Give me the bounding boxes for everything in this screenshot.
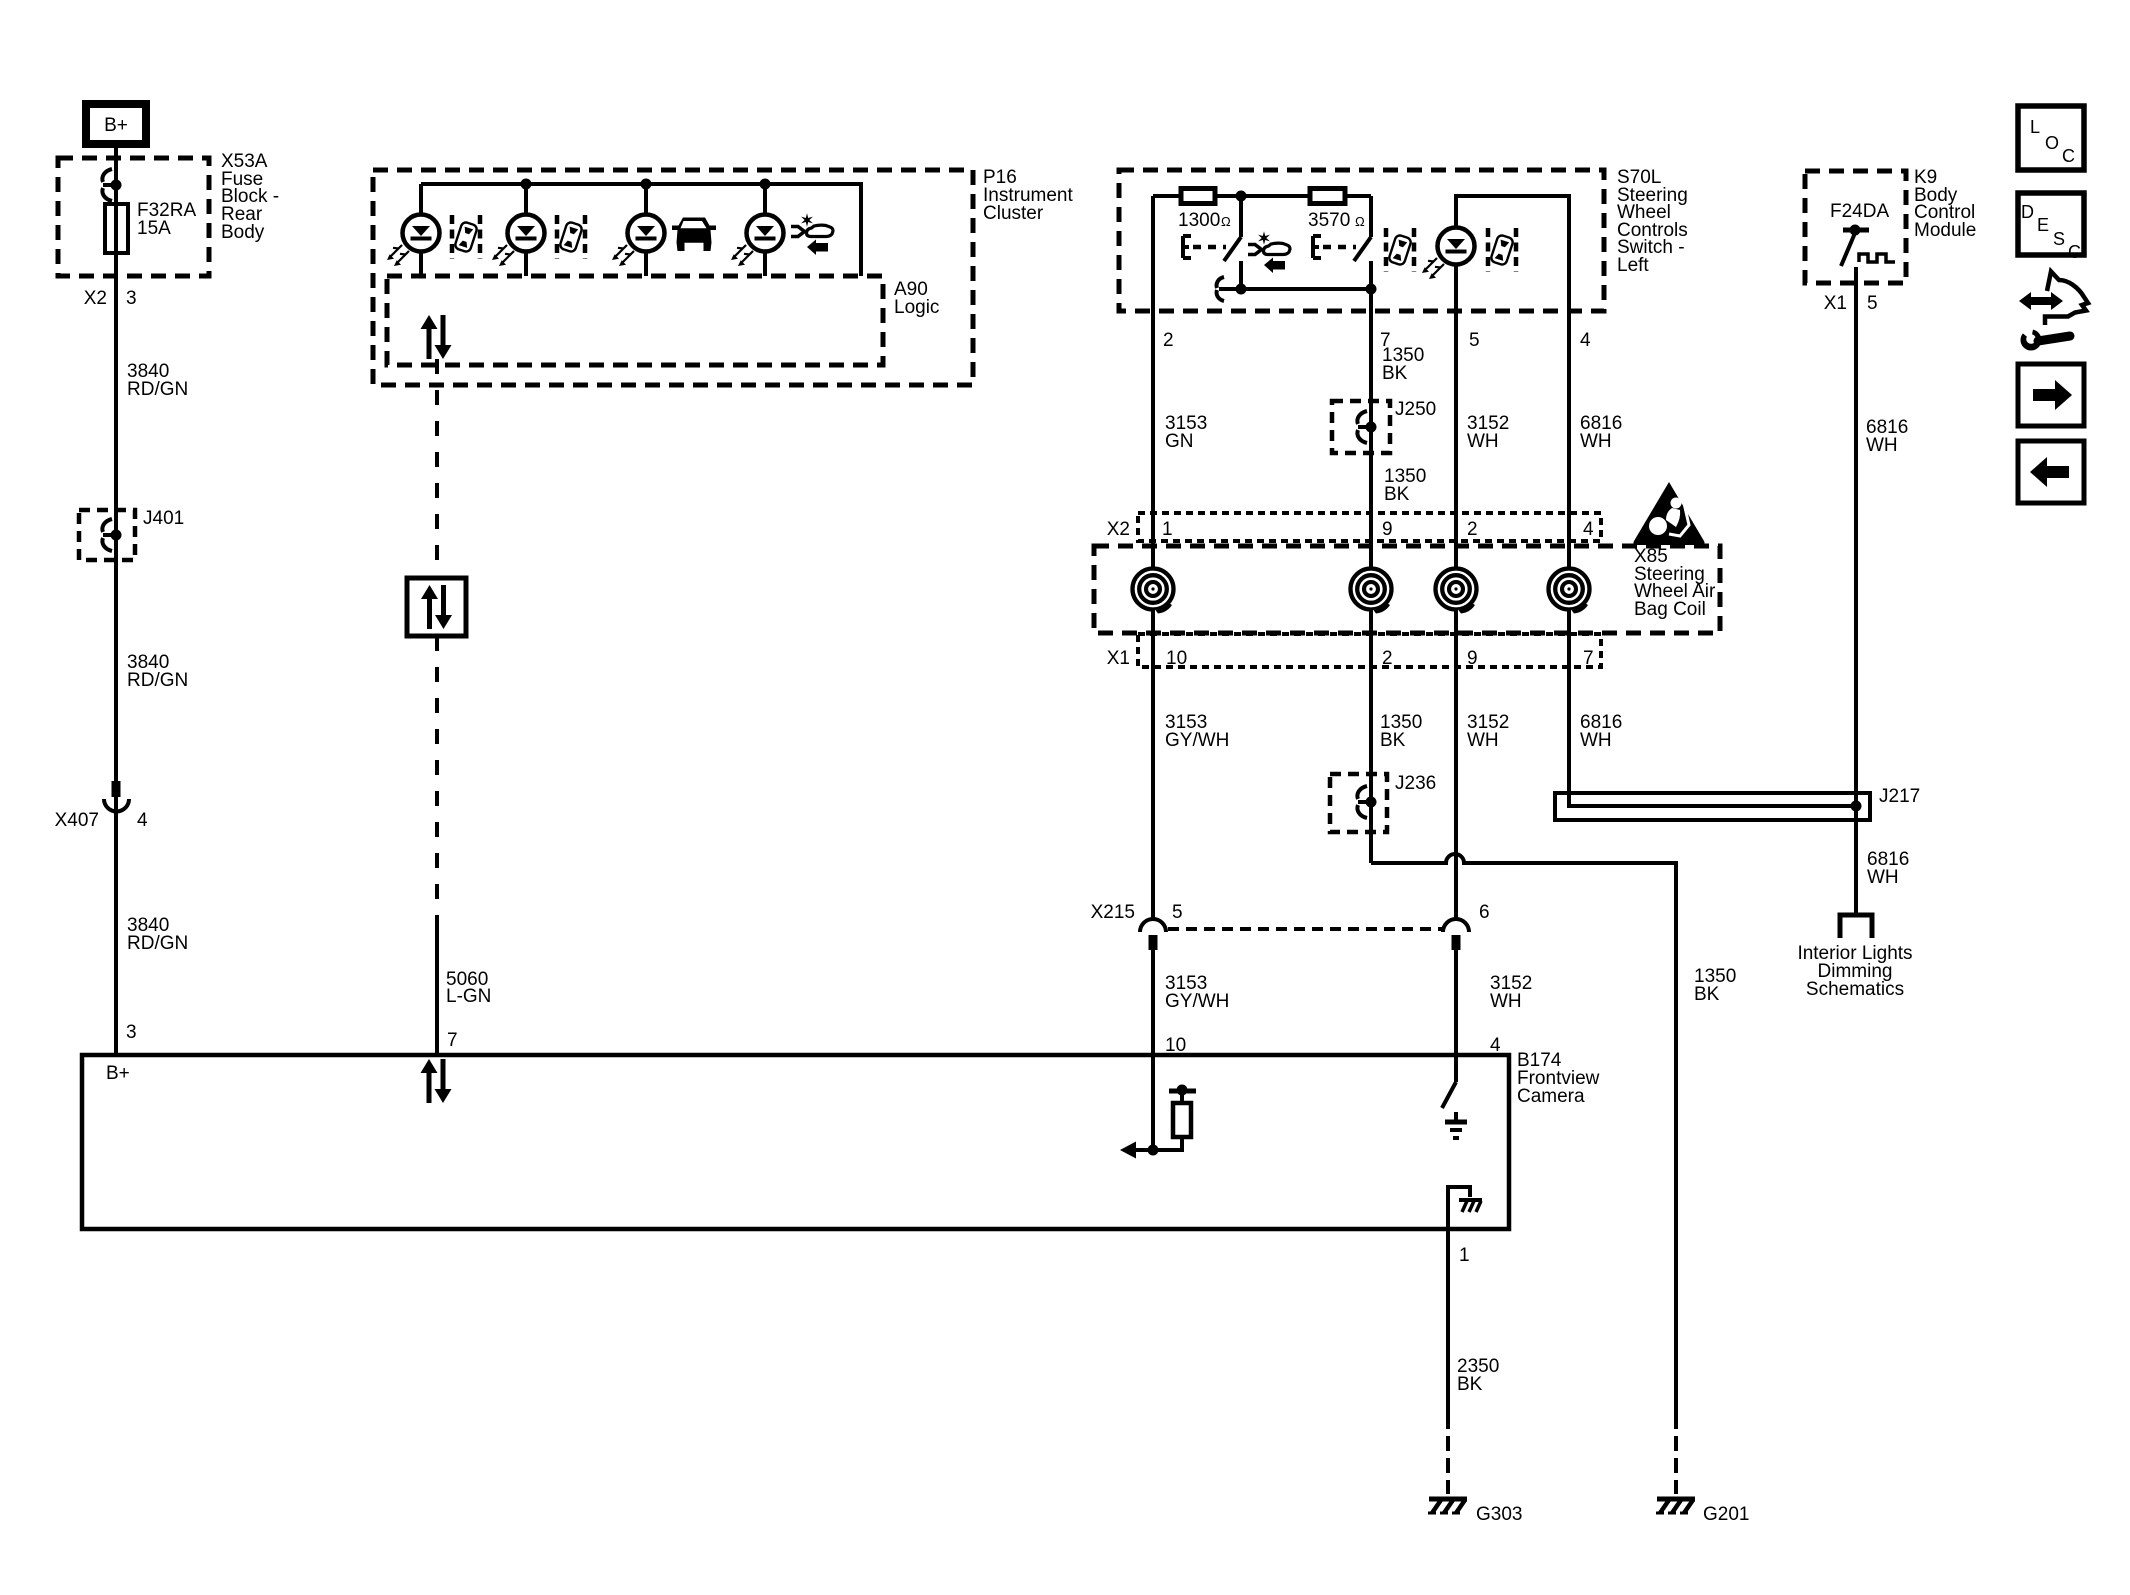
svg-text:7: 7 [447, 1030, 458, 1051]
LED indicator lamp 4 [731, 215, 784, 267]
splice J236 [1330, 773, 1436, 832]
svg-text:C: C [2062, 146, 2075, 166]
svg-text:2: 2 [1163, 330, 1174, 351]
inline connector X215 [1091, 902, 1490, 950]
ground G201 [1656, 1499, 1749, 1525]
wire label 2350 BK [1457, 1356, 1499, 1395]
svg-text:Camera: Camera [1517, 1086, 1585, 1107]
svg-text:F24DA: F24DA [1830, 201, 1889, 222]
svg-text:GN: GN [1165, 431, 1194, 452]
wire label 3153 GY/WH lower [1165, 973, 1229, 1012]
fuse F32RA 15A [105, 200, 196, 253]
svg-text:C: C [2068, 242, 2081, 262]
label X85 Steering Wheel Air Bag Coil [1634, 546, 1716, 620]
LED branch wire in switch [1456, 196, 1569, 311]
junction node dot 4 [760, 179, 771, 190]
svg-text:10: 10 [1166, 648, 1187, 669]
legend connector repair icon [2015, 272, 2088, 351]
svg-text:X407: X407 [55, 810, 99, 831]
legend arrow left box [2018, 441, 2084, 503]
svg-text:4: 4 [1580, 330, 1591, 351]
serial data wire 5060 L-GN solid tail [435, 922, 439, 1055]
wire label 1350 BK [1380, 712, 1422, 751]
camera pin 4 input with ground [1442, 1055, 1467, 1138]
svg-text:2: 2 [1467, 519, 1478, 540]
svg-text:3: 3 [126, 288, 137, 309]
svg-text:Left: Left [1617, 255, 1649, 276]
svg-text:WH: WH [1467, 431, 1499, 452]
LED indicator lamp 1 [387, 215, 440, 267]
LED indicator lamp 3 [612, 215, 665, 267]
label K9 Body Control Module [1914, 167, 1976, 241]
svg-text:X2: X2 [1107, 519, 1130, 540]
svg-text:WH: WH [1867, 867, 1899, 888]
resistor 3570 ohm [1308, 189, 1365, 232]
svg-text:GY/WH: GY/WH [1165, 991, 1229, 1012]
wire label 3153 GN [1165, 413, 1207, 452]
wire label 3840 RD/GN [127, 361, 188, 400]
svg-text:D: D [2021, 202, 2034, 222]
serial data arrows in A90 [421, 315, 452, 359]
connector X2 row of air bag coil [1107, 513, 1601, 541]
wire from left rail to pin 2 [1151, 196, 1155, 311]
lane departure icon 2 [557, 215, 585, 259]
svg-text:X2: X2 [84, 288, 107, 309]
junction dot rail to pin7 wire [1366, 284, 1377, 295]
camera pin 10 input circuit [1120, 1055, 1196, 1159]
coil 3 [1434, 567, 1479, 614]
junction node dot 3 [641, 179, 652, 190]
svg-text:Ω: Ω [1355, 214, 1365, 229]
wire 3153 GY/WH to B174 pin 10 [1151, 947, 1155, 1055]
connector X407 pin 4 eyelet [55, 781, 148, 831]
switch 1 contact [1224, 196, 1241, 289]
svg-text:L: L [2030, 117, 2040, 137]
logic module A90 box [387, 276, 883, 365]
coil 4 [1547, 567, 1592, 614]
label P16 Instrument Cluster [983, 167, 1073, 224]
wire label 6816 WH upper [1866, 417, 1908, 456]
svg-text:Ω: Ω [1221, 214, 1231, 229]
svg-text:O: O [2045, 133, 2059, 153]
vehicle ahead icon [672, 218, 716, 252]
wire label 1350 BK [1382, 345, 1424, 384]
svg-text:WH: WH [1866, 435, 1898, 456]
splice J250 [1332, 399, 1436, 453]
svg-text:1: 1 [1459, 1245, 1470, 1266]
wire label 3152 WH lower [1490, 973, 1532, 1012]
svg-text:L-GN: L-GN [446, 986, 491, 1007]
wire 3152 WH from pin 5 [1454, 311, 1458, 919]
svg-text:4: 4 [137, 810, 148, 831]
svg-text:G201: G201 [1703, 1504, 1749, 1525]
body control module K9 box [1805, 171, 1906, 283]
svg-text:6: 6 [1479, 902, 1490, 923]
switch common rail wire [1219, 287, 1371, 291]
svg-text:1300: 1300 [1178, 210, 1220, 231]
rail end hook [1217, 277, 1224, 301]
svg-text:S: S [2053, 229, 2065, 249]
label S70L Steering Wheel Controls Switch - Left [1617, 167, 1688, 276]
svg-text:5: 5 [1172, 902, 1183, 923]
switch 2 actuator linkage [1313, 236, 1356, 258]
legend arrow right box [2018, 364, 2084, 426]
svg-text:1: 1 [1162, 519, 1173, 540]
svg-text:WH: WH [1580, 730, 1612, 751]
svg-text:RD/GN: RD/GN [127, 379, 188, 400]
svg-text:WH: WH [1467, 730, 1499, 751]
switch top rail wire [1153, 194, 1371, 198]
switch 1 actuator linkage [1183, 236, 1226, 258]
connector X1 pin 5 of K9 [1824, 293, 1878, 314]
svg-text:BK: BK [1382, 363, 1408, 384]
legend LOC box [2018, 106, 2084, 170]
splice J401 [79, 508, 184, 560]
wire 1350 BK elbow to G201 with hop over 3152 [1371, 854, 1676, 1414]
svg-text:J401: J401 [143, 508, 184, 529]
svg-text:X1: X1 [1824, 293, 1847, 314]
svg-text:J250: J250 [1395, 399, 1436, 420]
wire label 3152 WH [1467, 712, 1509, 751]
camera pin 1 internal ground [1448, 1187, 1482, 1229]
wire label 1350 BK below J250 [1384, 466, 1426, 505]
lane icon left of switch LED [1386, 228, 1414, 272]
wire label 6816 WH [1580, 712, 1622, 751]
LED indicator lamp 2 [492, 215, 545, 267]
lamp branch wire 3 [644, 184, 648, 276]
svg-text:RD/GN: RD/GN [127, 933, 188, 954]
wire label 3153 GY/WH [1165, 712, 1229, 751]
coil 2 [1349, 567, 1394, 614]
solid state fuse F24DA [1830, 201, 1895, 283]
wire 6816 WH from K9 to dimming schematics [1854, 283, 1858, 915]
svg-text:2: 2 [1382, 648, 1393, 669]
svg-text:Cluster: Cluster [983, 203, 1044, 224]
wire 2350 BK to G303 [1446, 1229, 1450, 1494]
label X53A Fuse Block - Rear Body [221, 151, 279, 243]
steering wheel air bag coil X85 box [1094, 546, 1720, 633]
svg-text:5: 5 [1469, 330, 1480, 351]
pin labels 2 7 5 4 [1163, 330, 1591, 351]
serial data gateway box [407, 578, 466, 636]
serial data wire 5060 L-GN lower dashed [435, 636, 439, 928]
junction node dot 2 [521, 179, 532, 190]
svg-text:4: 4 [1583, 519, 1594, 540]
svg-text:BK: BK [1384, 484, 1410, 505]
wire label 3152 WH [1467, 413, 1509, 452]
svg-text:15A: 15A [137, 218, 171, 239]
wire 3152 WH to B174 pin 4 [1454, 947, 1458, 1055]
svg-text:Schematics: Schematics [1806, 979, 1904, 1000]
serial data arrows at camera pin 7 [421, 1059, 452, 1103]
svg-text:Body: Body [221, 222, 265, 243]
connector X2 pin 3 of fuse block [84, 288, 137, 309]
wire 6816 WH from pin 4 [1567, 311, 1571, 806]
wire label 3840 RD/GN [127, 652, 188, 691]
wire label 3840 RD/GN [127, 915, 188, 954]
lamp branch wire 1 [419, 184, 423, 276]
svg-text:5: 5 [1867, 293, 1878, 314]
air bag warning triangle [1633, 482, 1704, 545]
fuse block bus tap splice [102, 169, 121, 201]
cluster lamp feed bus wire [421, 184, 861, 276]
svg-text:WH: WH [1580, 431, 1612, 452]
lane departure icon 1 [452, 215, 480, 259]
svg-text:Module: Module [1914, 220, 1976, 241]
resistor 1300 ohm [1178, 189, 1231, 232]
coil 1 [1131, 567, 1176, 614]
serial data wire 5060 L-GN upper dashed [435, 359, 439, 578]
svg-text:BK: BK [1694, 984, 1720, 1005]
label B174 Frontview Camera [1517, 1050, 1600, 1107]
svg-text:B+: B+ [104, 115, 128, 136]
connector X1 row of air bag coil [1107, 634, 1601, 669]
wire label 5060 L-GN [446, 969, 491, 1007]
junction dot on rail [1236, 191, 1247, 202]
svg-text:9: 9 [1382, 519, 1393, 540]
instrument cluster P16 box [373, 170, 973, 385]
svg-text:G303: G303 [1476, 1504, 1522, 1525]
svg-text:WH: WH [1490, 991, 1522, 1012]
svg-text:RD/GN: RD/GN [127, 670, 188, 691]
svg-text:Bag Coil: Bag Coil [1634, 599, 1706, 620]
fuse block X53A box [58, 158, 209, 276]
wire 1350 BK dashed tail to G201 [1674, 1414, 1678, 1494]
svg-text:3: 3 [126, 1022, 137, 1043]
wire from switch LED to pin 5 [1454, 263, 1458, 311]
svg-text:BK: BK [1380, 730, 1406, 751]
ground G303 [1428, 1499, 1522, 1525]
power symbol B+ [86, 104, 146, 144]
svg-text:E: E [2037, 215, 2049, 235]
lane icon right of switch LED [1488, 228, 1516, 272]
svg-text:3570: 3570 [1308, 210, 1350, 231]
legend DESC box [2018, 193, 2084, 262]
collision alert icon [791, 213, 833, 255]
steering wheel controls switch S70L box [1119, 170, 1604, 311]
LED indicator in switch [1422, 228, 1475, 280]
lamp branch wire 4 [763, 184, 767, 276]
label Interior Lights Dimming Schematics [1797, 943, 1912, 1000]
svg-text:Logic: Logic [894, 297, 939, 318]
wire label 6816 WH lower [1867, 849, 1909, 888]
off page connector bracket [1840, 915, 1872, 938]
wire label 6816 WH [1580, 413, 1622, 452]
wire 1350 BK from pin 7 [1369, 311, 1373, 863]
svg-text:GY/WH: GY/WH [1165, 730, 1229, 751]
lamp branch wire 2 [524, 184, 528, 276]
svg-text:J236: J236 [1395, 773, 1436, 794]
junction dot switch1 to rail [1236, 284, 1247, 295]
wire label 1350 BK at G201 [1694, 966, 1736, 1005]
svg-text:B+: B+ [106, 1063, 130, 1084]
svg-text:J217: J217 [1879, 786, 1920, 807]
svg-text:X215: X215 [1091, 902, 1135, 923]
wire 3153 GN from pin 2 [1151, 311, 1155, 919]
svg-text:X1: X1 [1107, 648, 1130, 669]
splice bus J217 [1555, 786, 1920, 820]
svg-text:9: 9 [1467, 648, 1478, 669]
switch 2 contact [1354, 196, 1371, 311]
svg-text:BK: BK [1457, 1374, 1483, 1395]
collision alert icon in switch [1248, 231, 1290, 273]
frontview camera B174 box [82, 1055, 1509, 1229]
label A90 Logic [894, 279, 939, 318]
svg-text:7: 7 [1583, 648, 1594, 669]
wire 3840 RD/GN from B+ to B174 pin 3 [114, 145, 118, 1055]
